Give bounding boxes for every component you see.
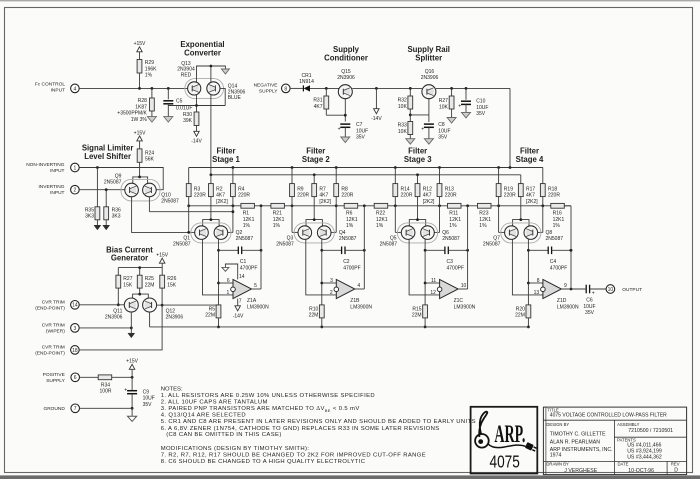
svg-text:56K: 56K: [145, 157, 155, 163]
svg-text:2N5087: 2N5087: [442, 236, 460, 242]
svg-text:2N5087: 2N5087: [276, 241, 294, 247]
svg-text:ARP.: ARP.: [494, 421, 525, 448]
svg-text:220R: 220R: [504, 193, 516, 199]
svg-text:220R: 220R: [238, 193, 250, 199]
svg-text:7: 7: [239, 298, 242, 304]
svg-text:4K7: 4K7: [526, 193, 535, 199]
svg-text:NEGATIVE: NEGATIVE: [254, 83, 278, 89]
svg-text:(C8 CAN BE OMITTED IN THIS CAS: (C8 CAN BE OMITTED IN THIS CASE): [166, 432, 281, 438]
svg-text:2N5087: 2N5087: [236, 236, 254, 242]
svg-text:7: 7: [74, 406, 77, 412]
svg-text:4075: 4075: [490, 453, 521, 472]
svg-text:Conditioner: Conditioner: [324, 53, 368, 62]
svg-text:2N3906: 2N3906: [166, 315, 184, 321]
svg-text:220R: 220R: [341, 193, 353, 199]
svg-text:4: 4: [357, 283, 360, 289]
svg-text:220R: 220R: [401, 193, 413, 199]
svg-text:1%: 1%: [479, 223, 487, 229]
svg-text:2N5087: 2N5087: [104, 180, 122, 186]
svg-text:22M: 22M: [205, 313, 215, 319]
svg-text:1%: 1%: [243, 223, 251, 229]
svg-text:12K1: 12K1: [243, 217, 255, 223]
svg-text:Z1B: Z1B: [350, 298, 360, 304]
svg-text:220R: 220R: [297, 193, 309, 199]
svg-text:R2: R2: [216, 186, 223, 192]
svg-text:12K1: 12K1: [376, 217, 388, 223]
svg-text:INVERTING: INVERTING: [38, 184, 64, 190]
svg-text:2N5087: 2N5087: [546, 236, 564, 242]
svg-text:10UF: 10UF: [583, 304, 595, 310]
svg-text:INPUT: INPUT: [50, 190, 64, 196]
svg-text:10UF: 10UF: [356, 128, 368, 134]
svg-text:R24: R24: [145, 150, 154, 156]
svg-text:4075 VOLTAGE CONTROLLED LOW-P: 4075 VOLTAGE CONTROLLED LOW-PASS FILTER: [550, 413, 667, 419]
svg-text:R27: R27: [123, 276, 132, 282]
svg-text:DESIGN BY: DESIGN BY: [546, 422, 569, 427]
svg-text:R26: R26: [167, 276, 176, 282]
svg-text:R14: R14: [401, 186, 410, 192]
svg-text:2: 2: [74, 188, 77, 194]
svg-text:Z1A: Z1A: [247, 298, 257, 304]
svg-text:1K87: 1K87: [135, 104, 147, 110]
svg-text:12K1: 12K1: [449, 217, 461, 223]
svg-text:10: 10: [608, 287, 614, 293]
svg-text:TITLE: TITLE: [547, 407, 559, 412]
svg-text:Q11: Q11: [113, 308, 122, 314]
svg-text:-14V: -14V: [233, 313, 244, 319]
svg-text:12: 12: [430, 290, 436, 296]
svg-text:15K: 15K: [167, 282, 177, 288]
svg-text:14: 14: [239, 274, 245, 280]
svg-text:C2: C2: [343, 259, 350, 265]
svg-text:11: 11: [431, 278, 436, 284]
svg-text:R35: R35: [85, 207, 94, 213]
svg-text:GROUND: GROUND: [43, 406, 65, 412]
svg-text:4700PF: 4700PF: [550, 265, 568, 271]
svg-text:R6: R6: [346, 211, 353, 217]
svg-text:R33: R33: [398, 123, 407, 129]
svg-text:R12: R12: [423, 186, 432, 192]
svg-text:7210500 / 7210501: 7210500 / 7210501: [628, 428, 673, 434]
svg-text:22M: 22M: [145, 282, 155, 288]
svg-text:2. ALL 10UF CAPS ARE TANTALUM: 2. ALL 10UF CAPS ARE TANTALUM: [161, 399, 268, 405]
svg-text:C7: C7: [356, 122, 363, 128]
svg-text:+15V: +15V: [134, 41, 146, 47]
svg-text:18: 18: [72, 348, 78, 354]
svg-text:10UF: 10UF: [476, 105, 488, 111]
svg-text:12K1: 12K1: [273, 217, 285, 223]
svg-text:9: 9: [564, 283, 567, 289]
svg-text:Level Shifter: Level Shifter: [84, 152, 131, 161]
svg-text:22M: 22M: [412, 313, 422, 319]
svg-text:LM3900N: LM3900N: [454, 304, 476, 310]
svg-text:Q15: Q15: [341, 69, 351, 75]
svg-text:196K: 196K: [145, 66, 157, 72]
svg-text:22M: 22M: [309, 313, 319, 319]
svg-text:C8: C8: [438, 122, 445, 128]
svg-text:R22: R22: [376, 211, 385, 217]
svg-text:R11: R11: [449, 211, 458, 217]
svg-text:Stage 1: Stage 1: [212, 155, 240, 164]
svg-text:[2K2]: [2K2]: [319, 199, 331, 205]
svg-text:1%: 1%: [145, 73, 153, 79]
svg-text:Converter: Converter: [184, 48, 221, 57]
svg-text:Q3: Q3: [287, 235, 294, 241]
svg-text:+3500PPM/K: +3500PPM/K: [117, 111, 147, 117]
svg-text:R17: R17: [526, 186, 535, 192]
svg-text:2N3906: 2N3906: [105, 315, 123, 321]
svg-text:Stage 3: Stage 3: [404, 155, 432, 164]
svg-text:2N5087: 2N5087: [380, 241, 398, 247]
svg-text:[2K2]: [2K2]: [423, 199, 435, 205]
svg-text:(END-POINT): (END-POINT): [35, 350, 65, 356]
svg-text:5. CR1 AND C8 ARE PRESENT IN L: 5. CR1 AND C8 ARE PRESENT IN LATER REVIS…: [161, 419, 476, 425]
svg-text:4. Q13/Q14 ARE SELECTED: 4. Q13/Q14 ARE SELECTED: [161, 413, 246, 419]
svg-text:3K3: 3K3: [112, 214, 121, 220]
svg-text:US #3,444,362: US #3,444,362: [627, 455, 662, 461]
svg-text:39K: 39K: [183, 118, 193, 124]
svg-text:22M: 22M: [515, 313, 525, 319]
svg-text:R10: R10: [309, 306, 318, 312]
svg-text:Q16: Q16: [425, 69, 435, 75]
svg-text:C3: C3: [447, 259, 454, 265]
svg-text:12K1: 12K1: [553, 217, 565, 223]
svg-text:1W 3%: 1W 3%: [131, 117, 148, 123]
svg-text:ASSEMBLY: ASSEMBLY: [617, 422, 639, 427]
svg-text:4K7: 4K7: [314, 104, 323, 110]
svg-text:Q1: Q1: [183, 235, 190, 241]
svg-text:-14V: -14V: [191, 138, 202, 144]
svg-text:4K7: 4K7: [319, 193, 328, 199]
svg-text:REV: REV: [671, 462, 680, 467]
svg-text:14: 14: [72, 303, 78, 309]
svg-text:3K3: 3K3: [85, 214, 94, 220]
svg-text:C1: C1: [240, 259, 247, 265]
svg-text:R34: R34: [101, 382, 110, 388]
svg-text:+: +: [592, 291, 595, 297]
svg-text:12K1: 12K1: [346, 217, 358, 223]
svg-text:R36: R36: [112, 207, 121, 213]
svg-text:US #3,924,199: US #3,924,199: [627, 449, 662, 455]
svg-text:R19: R19: [504, 186, 513, 192]
svg-text:R27: R27: [439, 98, 448, 104]
svg-text:Z1D: Z1D: [557, 298, 567, 304]
svg-text:+15V: +15V: [156, 253, 168, 259]
svg-text:R16: R16: [553, 211, 562, 217]
svg-text:10K: 10K: [398, 129, 408, 135]
svg-text:2: 2: [330, 290, 333, 296]
svg-text:1%: 1%: [553, 223, 561, 229]
svg-text:35V: 35V: [143, 402, 153, 408]
svg-text:R4: R4: [238, 186, 245, 192]
svg-text:R7: R7: [319, 186, 326, 192]
svg-text:5: 5: [254, 283, 257, 289]
svg-text:1%: 1%: [449, 223, 457, 229]
svg-text:1: 1: [227, 290, 230, 296]
svg-text:35V: 35V: [476, 111, 486, 117]
svg-text:[2K2]: [2K2]: [526, 199, 538, 205]
svg-text:D: D: [674, 468, 678, 474]
svg-text:35V: 35V: [356, 135, 366, 141]
svg-text:R30: R30: [183, 112, 192, 118]
svg-text:2N5087: 2N5087: [173, 241, 191, 247]
svg-text:8: 8: [284, 86, 287, 92]
svg-text:Q5: Q5: [390, 235, 397, 241]
svg-text:CVR TRIM: CVR TRIM: [42, 300, 65, 306]
svg-text:8. C6 SHOULD BE CHANGED TO A H: 8. C6 SHOULD BE CHANGED TO A HIGH QUALIT…: [161, 459, 366, 465]
svg-text:R28: R28: [138, 98, 147, 104]
svg-text:10-OCT-96: 10-OCT-96: [628, 468, 654, 474]
svg-text:1%: 1%: [346, 223, 354, 229]
svg-text:+15V: +15V: [134, 130, 146, 136]
svg-text:R3: R3: [194, 186, 201, 192]
svg-text:100R: 100R: [100, 389, 112, 395]
svg-text:Splitter: Splitter: [415, 53, 442, 62]
svg-text:C6: C6: [586, 298, 593, 304]
svg-text:+: +: [458, 104, 461, 110]
svg-text:Generator: Generator: [111, 254, 148, 263]
svg-text:1%: 1%: [376, 223, 384, 229]
svg-text:10UF: 10UF: [143, 396, 155, 402]
svg-text:1%: 1%: [273, 223, 281, 229]
svg-text:R20: R20: [516, 306, 525, 312]
svg-text:C5: C5: [176, 99, 183, 105]
svg-text:R18: R18: [548, 186, 557, 192]
svg-text:4700PF: 4700PF: [240, 265, 258, 271]
svg-text:7. R2, R7, R12, R17 SHOULD BE: 7. R2, R7, R12, R17 SHOULD BE CHANGED TO…: [161, 453, 426, 459]
svg-text:10UF: 10UF: [438, 128, 450, 134]
svg-text:NOTES:: NOTES:: [161, 387, 183, 393]
svg-text:0.01UF: 0.01UF: [176, 105, 192, 111]
svg-text:4700PF: 4700PF: [447, 265, 465, 271]
svg-text:4K7: 4K7: [423, 193, 432, 199]
svg-text:6: 6: [227, 278, 230, 284]
svg-text:8: 8: [537, 278, 540, 284]
svg-text:MODIFICATIONS (DESIGN BY TIMOT: MODIFICATIONS (DESIGN BY TIMOTHY SMITH):: [161, 446, 310, 452]
svg-text:C4: C4: [550, 259, 557, 265]
svg-text:R25: R25: [145, 276, 154, 282]
svg-text:10: 10: [461, 283, 467, 289]
svg-text:10K: 10K: [439, 104, 449, 110]
svg-text:10K: 10K: [398, 104, 408, 110]
svg-text:6. A 6,8V ZENER (1N754, CATHOD: 6. A 6,8V ZENER (1N754, CATHODE TO GND) …: [161, 426, 440, 432]
svg-text:ALAN R. PEARLMAN: ALAN R. PEARLMAN: [550, 440, 600, 446]
svg-text:12K1: 12K1: [479, 217, 491, 223]
svg-text:2N3906: 2N3906: [337, 75, 355, 81]
svg-text:R5: R5: [209, 306, 216, 312]
svg-text:2N5087: 2N5087: [161, 199, 179, 205]
svg-text:INPUT: INPUT: [50, 168, 64, 174]
svg-text:220R: 220R: [194, 193, 206, 199]
svg-text:Q7: Q7: [493, 235, 500, 241]
svg-text:220R: 220R: [445, 193, 457, 199]
svg-text:Z1C: Z1C: [454, 298, 464, 304]
svg-text:4700PF: 4700PF: [343, 265, 361, 271]
svg-text:35V: 35V: [438, 135, 448, 141]
svg-text:TIMOTHY C. GILLETTE: TIMOTHY C. GILLETTE: [550, 431, 606, 437]
svg-text:C10: C10: [476, 99, 485, 105]
svg-text:R31: R31: [313, 98, 322, 104]
svg-text:4K7: 4K7: [216, 193, 225, 199]
svg-text:R1: R1: [243, 211, 250, 217]
svg-text:LM3900N: LM3900N: [350, 304, 372, 310]
svg-text:2N5087: 2N5087: [483, 241, 501, 247]
svg-text:1: 1: [74, 165, 77, 171]
svg-text:R32: R32: [398, 98, 407, 104]
svg-text:C9: C9: [143, 389, 150, 395]
svg-text:R21: R21: [273, 211, 282, 217]
svg-text:(END-POINT): (END-POINT): [35, 305, 65, 311]
svg-text:+15V: +15V: [126, 359, 138, 365]
svg-text:R8: R8: [341, 186, 348, 192]
svg-text:R15: R15: [412, 306, 421, 312]
svg-text:SUPPLY: SUPPLY: [46, 378, 65, 384]
svg-text:US #4,011,466: US #4,011,466: [627, 442, 661, 448]
svg-text:2N5087: 2N5087: [339, 236, 357, 242]
svg-text:4: 4: [74, 86, 77, 92]
svg-text:R29: R29: [145, 60, 154, 66]
svg-text:DRAWN BY: DRAWN BY: [546, 462, 569, 467]
svg-text:Fc CONTROL: Fc CONTROL: [35, 82, 65, 88]
svg-text:220R: 220R: [548, 193, 560, 199]
svg-text:BLUE: BLUE: [228, 95, 242, 101]
svg-text:35V: 35V: [585, 310, 595, 316]
svg-text:J VERGHESE: J VERGHESE: [564, 468, 597, 474]
svg-text:LM3900N: LM3900N: [247, 304, 269, 310]
svg-text:Stage 2: Stage 2: [302, 155, 330, 164]
svg-text:1. ALL RESISTORS ARE 0.25W 10%: 1. ALL RESISTORS ARE 0.25W 10% UNLESS OT…: [161, 393, 375, 399]
svg-text:[2K2]: [2K2]: [216, 199, 228, 205]
svg-text:3: 3: [330, 278, 333, 284]
svg-text:OUTPUT: OUTPUT: [622, 287, 642, 293]
svg-text:+: +: [338, 126, 341, 132]
svg-text:-14V: -14V: [371, 116, 382, 122]
svg-text:NON-INVERTING: NON-INVERTING: [26, 162, 65, 168]
svg-text:R23: R23: [479, 211, 488, 217]
svg-text:Q12: Q12: [166, 308, 176, 314]
svg-text:POSITIVE: POSITIVE: [43, 372, 65, 378]
svg-text:CVR TRIM: CVR TRIM: [42, 345, 65, 351]
svg-text:Q10: Q10: [161, 192, 171, 198]
svg-text:SUPPLY: SUPPLY: [259, 88, 278, 94]
svg-text:3. PAIRED PNP TRANSISTORS ARE: 3. PAIRED PNP TRANSISTORS ARE MATCHED TO…: [161, 406, 360, 413]
svg-text:DATE: DATE: [618, 462, 629, 467]
svg-text:Stage 4: Stage 4: [516, 155, 544, 164]
svg-text:RED: RED: [181, 72, 192, 78]
svg-text:(WIPER): (WIPER): [46, 328, 65, 334]
svg-text:LM3900N: LM3900N: [557, 304, 579, 310]
svg-text:1N914: 1N914: [299, 79, 314, 85]
svg-text:CVR TRIM: CVR TRIM: [42, 323, 65, 329]
svg-text:+: +: [124, 388, 127, 394]
svg-text:6: 6: [74, 375, 77, 381]
svg-text:13: 13: [534, 290, 540, 296]
svg-text:R9: R9: [297, 186, 304, 192]
svg-text:R13: R13: [445, 186, 454, 192]
svg-text:INPUT: INPUT: [51, 87, 65, 93]
svg-text:15K: 15K: [123, 282, 133, 288]
svg-text:1974: 1974: [550, 452, 562, 458]
svg-text:2N3906: 2N3906: [421, 75, 439, 81]
svg-text:3: 3: [74, 326, 77, 332]
svg-text:+: +: [421, 126, 424, 132]
